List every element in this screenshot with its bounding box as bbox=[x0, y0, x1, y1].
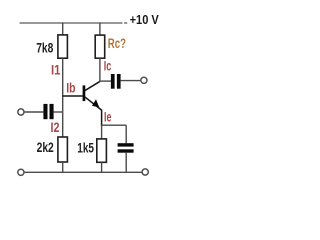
wire emitter to emitter node bbox=[101, 109, 103, 126]
wire C2 to output terminal bbox=[121, 80, 141, 82]
svg-text:+10 V: +10 V bbox=[130, 13, 160, 27]
resistor R1 7k8 bbox=[58, 35, 68, 58]
input terminal circle bbox=[18, 109, 24, 115]
wire emitter node to Ce branch bbox=[101, 124, 126, 126]
svg-text:7k8: 7k8 bbox=[36, 41, 53, 56]
resistor Rc bbox=[95, 35, 105, 58]
wire emitter node down to Re top bbox=[101, 125, 103, 139]
transistor Q1 emitter arrowhead bbox=[92, 99, 99, 107]
svg-text:Ic: Ic bbox=[104, 58, 112, 73]
output terminal circle bbox=[141, 77, 147, 83]
ground terminal left circle bbox=[18, 169, 24, 175]
capacitor C2 output coupling bbox=[111, 74, 121, 89]
resistor Re 1k5 bbox=[97, 139, 107, 162]
wire rail dash before +10V bbox=[124, 22, 127, 24]
svg-text:Ie: Ie bbox=[104, 110, 112, 125]
resistor R2 2k2 bbox=[58, 137, 68, 162]
wire collector node to C2 bbox=[100, 80, 111, 82]
capacitor C1 input coupling bbox=[43, 104, 53, 119]
wire C1 to base node bbox=[54, 111, 63, 113]
wire Ce branch down to Ce bbox=[125, 125, 127, 143]
ground terminal right circle bbox=[142, 169, 148, 175]
capacitor Ce emitter bypass bbox=[118, 143, 134, 153]
transistor Q1 base bar bbox=[83, 85, 86, 101]
wire base node to transistor base bbox=[63, 95, 83, 97]
wire top supply rail bbox=[20, 22, 123, 24]
svg-text:Ib: Ib bbox=[66, 81, 75, 96]
wire R1 bottom to R2 top (base node line) bbox=[62, 58, 64, 137]
wire R2 bottom to ground rail bbox=[62, 162, 64, 172]
wire rail to Rc top bbox=[99, 22, 101, 35]
svg-text:Rc?: Rc? bbox=[108, 36, 126, 51]
transistor Q1 emitter lead bbox=[85, 97, 102, 110]
wire bottom ground rail bbox=[24, 171, 141, 173]
svg-text:I1: I1 bbox=[51, 63, 61, 78]
wire Rc bottom to collector node bbox=[99, 58, 101, 82]
wire rail to R1 top bbox=[62, 22, 64, 35]
wire input terminal to C1 bbox=[24, 111, 43, 113]
svg-text:I2: I2 bbox=[51, 120, 60, 135]
wire Re bottom to ground rail bbox=[101, 162, 103, 172]
transistor Q1 collector lead bbox=[85, 81, 100, 90]
svg-text:2k2: 2k2 bbox=[37, 140, 54, 155]
svg-text:1k5: 1k5 bbox=[77, 140, 94, 155]
wire Ce to ground rail bbox=[125, 153, 127, 173]
